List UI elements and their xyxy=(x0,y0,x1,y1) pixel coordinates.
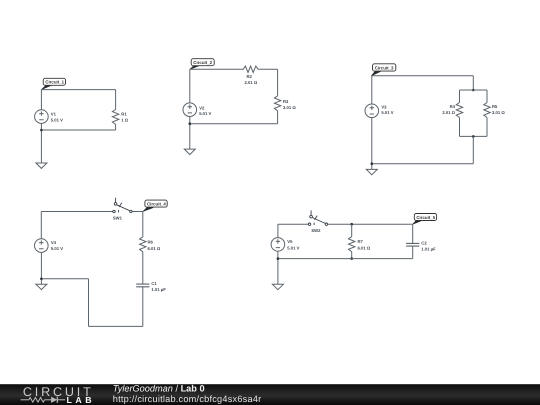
wire left branch lower (circuit 3) xyxy=(459,118,461,137)
voltage source V5 xyxy=(271,238,300,252)
wire right lower (circuit 1) xyxy=(115,124,117,130)
junction (parallel top node) xyxy=(472,89,475,92)
svg-text:TylerGoodman / Lab 0: TylerGoodman / Lab 0 xyxy=(113,384,205,394)
voltage source V2 xyxy=(183,103,212,117)
svg-text:1.01 μF: 1.01 μF xyxy=(421,246,436,251)
resistor R2 xyxy=(243,66,258,85)
svg-text:R5: R5 xyxy=(492,104,498,109)
wire V1 top lead xyxy=(40,90,42,110)
resistor R5 xyxy=(484,103,506,118)
wire V3 bottom lead to ground xyxy=(371,118,373,170)
wire right upper (circuit 1) xyxy=(115,90,117,110)
wire return to source (circuit 4) xyxy=(41,278,88,280)
node label Circuit_5 xyxy=(413,214,437,225)
junction (circuit 5 ground node) xyxy=(277,257,280,260)
svg-text:R3: R3 xyxy=(283,99,289,104)
wire parallel top rail xyxy=(460,89,488,91)
ground (circuit 2) xyxy=(184,149,195,154)
svg-text:V3: V3 xyxy=(381,104,387,109)
wire bottom (circuit 2) xyxy=(190,123,278,125)
wire top (circuit 1) xyxy=(41,89,115,91)
wire C2 top lead xyxy=(412,224,414,243)
CircuitLab logo wire 3 xyxy=(58,399,65,401)
wire V5 top lead xyxy=(277,224,279,237)
junction (parallel bottom node) xyxy=(472,135,475,138)
wire top-left (circuit 4) xyxy=(41,211,113,213)
wire V4 top lead xyxy=(40,212,42,239)
wire parallel bottom rail xyxy=(460,135,488,137)
svg-text:6.01 Ω: 6.01 Ω xyxy=(148,246,161,251)
wire top-right (circuit 2) xyxy=(258,68,277,70)
wire bottom (circuit 5) xyxy=(278,258,413,260)
wire top-left (circuit 5) xyxy=(278,223,308,225)
ground (circuit 5) xyxy=(272,284,283,289)
wire V1 bottom lead to ground xyxy=(40,123,42,163)
wire right branch upper (circuit 3) xyxy=(486,90,488,103)
svg-text:5.01 V: 5.01 V xyxy=(199,111,211,116)
svg-text:Circuit_3: Circuit_3 xyxy=(375,65,394,70)
wire right upper (circuit 4) xyxy=(142,212,144,237)
wire V4 bottom lead to ground xyxy=(40,252,42,284)
junction (circuit 1 bottom node) xyxy=(40,129,43,132)
wire right upper (circuit 2) xyxy=(277,69,279,96)
svg-text:R2: R2 xyxy=(247,74,253,79)
svg-text:Circuit_2: Circuit_2 xyxy=(193,60,212,65)
junction (R7 bottom tap) xyxy=(350,257,353,260)
node label Circuit_1 xyxy=(41,78,65,89)
wire left branch upper (circuit 3) xyxy=(459,90,461,103)
svg-text:5.01 V: 5.01 V xyxy=(51,118,63,123)
resistor R4 xyxy=(442,103,462,118)
svg-text:1.01 μF: 1.01 μF xyxy=(151,287,166,292)
wire bottom horizontal (circuit 4) xyxy=(89,325,143,327)
ground (circuit 3) xyxy=(366,169,377,174)
ground (circuit 4) xyxy=(36,284,47,289)
svg-text:5.01 V: 5.01 V xyxy=(287,245,299,250)
switch SW2 xyxy=(308,210,327,225)
svg-text:V1: V1 xyxy=(51,112,57,117)
svg-text:C1: C1 xyxy=(151,281,157,286)
CircuitLab logo diode xyxy=(51,397,57,403)
resistor R1 xyxy=(112,109,128,124)
wire V3 top lead xyxy=(371,76,373,104)
wire between R6 and C1 xyxy=(142,252,144,284)
wire V5 bottom lead to ground xyxy=(277,251,279,284)
wire R7 upper lead xyxy=(351,224,353,237)
node label Circuit_4 xyxy=(143,200,167,211)
wire top-left (circuit 2) xyxy=(190,68,243,70)
wire top (circuit 3) xyxy=(371,75,473,77)
node label Circuit_2 xyxy=(190,59,214,70)
voltage source V1 xyxy=(35,110,64,124)
CircuitLab logo resistor xyxy=(29,398,45,403)
svg-text:6.01 Ω: 6.01 Ω xyxy=(358,245,371,250)
svg-text:Circuit_4: Circuit_4 xyxy=(147,201,166,206)
wire drop from parallel pair (circuit 3) xyxy=(472,136,474,163)
svg-text:LAB: LAB xyxy=(67,395,96,405)
wire top-right (circuit 4) xyxy=(132,211,143,213)
resistor R7 xyxy=(349,237,371,252)
svg-text:3.01 Ω: 3.01 Ω xyxy=(492,110,505,115)
svg-text:R7: R7 xyxy=(358,239,364,244)
svg-text:V4: V4 xyxy=(51,240,57,245)
svg-text:3.01 Ω: 3.01 Ω xyxy=(283,105,296,110)
svg-text:5.01 V: 5.01 V xyxy=(51,246,63,251)
junction (circuit 4 ground node) xyxy=(40,278,43,281)
wire C2 bottom lead xyxy=(412,246,414,259)
capacitor C1 xyxy=(136,281,166,292)
svg-text:Circuit_1: Circuit_1 xyxy=(45,80,64,85)
svg-text:V2: V2 xyxy=(199,105,205,110)
junction (R7 top tap) xyxy=(350,223,353,226)
svg-text:SW1: SW1 xyxy=(113,215,123,220)
wire right branch lower (circuit 3) xyxy=(486,118,488,137)
wire drop to parallel pair (circuit 3) xyxy=(472,76,474,90)
svg-text:R6: R6 xyxy=(148,239,154,244)
svg-text:5.01 V: 5.01 V xyxy=(381,110,393,115)
wire right lower (circuit 2) xyxy=(277,111,279,124)
wire R7 lower lead xyxy=(351,252,353,259)
svg-text:Circuit_5: Circuit_5 xyxy=(416,215,435,220)
ground (circuit 1) xyxy=(36,163,47,168)
CircuitLab logo wire xyxy=(21,399,29,401)
CircuitLab logo wire 2 xyxy=(45,399,52,401)
voltage source V3 xyxy=(365,104,394,118)
wire V2 top lead xyxy=(189,69,191,103)
svg-text:C2: C2 xyxy=(421,241,427,246)
resistor R3 xyxy=(274,96,296,111)
svg-text:R1: R1 xyxy=(121,112,127,117)
svg-text:2.01 Ω: 2.01 Ω xyxy=(245,80,258,85)
wire bottom (circuit 1) xyxy=(41,129,115,131)
svg-text:1 Ω: 1 Ω xyxy=(121,118,128,123)
svg-text:R4: R4 xyxy=(450,104,456,109)
svg-text:V5: V5 xyxy=(287,239,293,244)
wire bottom vertical (circuit 4) xyxy=(88,279,90,327)
capacitor C2 xyxy=(406,241,436,252)
wire C1 bottom lead (circuit 4) xyxy=(142,287,144,327)
svg-text:SW2: SW2 xyxy=(311,228,321,233)
voltage source V4 xyxy=(35,239,64,253)
svg-text:2.01 Ω: 2.01 Ω xyxy=(442,110,455,115)
node label Circuit_3 xyxy=(371,64,396,76)
svg-text:http://circuitlab.com/cbfcg4sx: http://circuitlab.com/cbfcg4sx6sa4r xyxy=(113,394,262,404)
wire V2 bottom lead to ground xyxy=(189,117,191,150)
junction (circuit 2 bottom node) xyxy=(189,122,192,125)
junction (circuit 3 bottom node) xyxy=(371,162,374,165)
switch SW1 xyxy=(113,198,132,213)
wire bottom (circuit 3) xyxy=(372,163,474,165)
resistor R6 xyxy=(140,237,161,252)
wire top-right (circuit 5) xyxy=(328,223,413,225)
